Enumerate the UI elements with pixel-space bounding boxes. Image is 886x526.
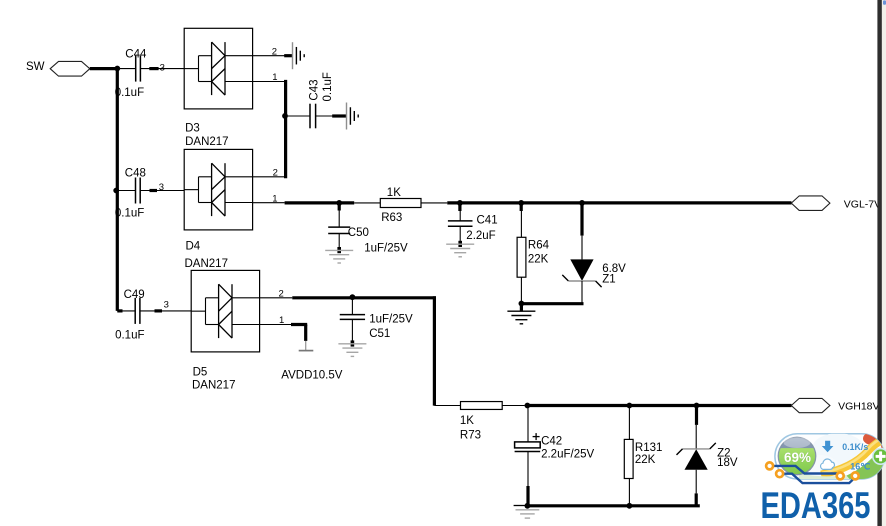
svg-text:D4: D4 xyxy=(186,241,201,253)
svg-text:R63: R63 xyxy=(381,212,402,224)
wire C49 to D5 pin3 xyxy=(140,310,191,312)
port SW xyxy=(50,61,90,76)
wire R63 to VGL rail xyxy=(421,202,447,204)
net label VGH18V xyxy=(838,400,879,412)
svg-text:0.1uF: 0.1uF xyxy=(115,208,144,220)
widget battery circle 69% xyxy=(778,437,817,476)
svg-text:SW: SW xyxy=(26,61,45,73)
wire C43 to ground xyxy=(316,115,347,117)
net label SW xyxy=(26,61,45,73)
svg-text:1uF/25V: 1uF/25V xyxy=(369,313,413,325)
svg-text:AVDD10.5V: AVDD10.5V xyxy=(281,369,342,381)
node C42 junction xyxy=(525,403,531,409)
svg-text:1: 1 xyxy=(272,72,277,83)
node Z1 top junction xyxy=(579,200,585,206)
capacitor C49 xyxy=(115,289,145,341)
label D3 xyxy=(185,123,200,135)
node C43 branch junction xyxy=(282,113,288,119)
wire D4 pin2 xyxy=(253,176,286,178)
wire C44 to D3 pin3 xyxy=(140,68,184,70)
wire bottom rail (thick) xyxy=(527,504,699,507)
wire R131 bottom xyxy=(628,479,630,506)
svg-text:3: 3 xyxy=(160,62,165,73)
wire D5 pin1 xyxy=(260,324,291,326)
node C51 junction xyxy=(350,294,356,300)
value DAN217 (D4) xyxy=(185,258,228,270)
svg-text:VGH18V: VGH18V xyxy=(838,400,879,412)
svg-text:C48: C48 xyxy=(125,168,146,180)
svg-text:C44: C44 xyxy=(125,48,147,60)
svg-text:C49: C49 xyxy=(124,289,145,301)
widget temperature text xyxy=(850,461,870,471)
power symbol AVDD10.5V xyxy=(299,341,314,351)
label D4 xyxy=(186,241,201,253)
wire thick vertical D3 pin1 to D4 pin2 xyxy=(284,80,287,178)
svg-text:18V: 18V xyxy=(717,457,738,469)
svg-text:2: 2 xyxy=(273,167,278,178)
net label AVDD10.5V xyxy=(281,369,342,381)
wire R64 top xyxy=(520,211,522,237)
ground (C41) xyxy=(446,241,474,257)
capacitor C42 (polarized) xyxy=(515,433,595,461)
wire D5 pin2 thick horizontal xyxy=(292,296,436,299)
wire R64 bottom xyxy=(520,277,522,303)
value DAN217 (D5) xyxy=(192,379,235,391)
zener Z2 18V xyxy=(677,443,738,470)
svg-text:0.1K/s: 0.1K/s xyxy=(842,442,868,452)
EDA365 logo text xyxy=(761,485,871,526)
label D5 xyxy=(193,367,208,379)
wire VGH vertical (thick) xyxy=(433,296,436,405)
scrollbar track xyxy=(882,0,886,526)
svg-text:2: 2 xyxy=(279,288,284,299)
widget PCB pads xyxy=(766,462,859,479)
capacitor C41 xyxy=(448,215,498,242)
svg-text:1uF/25V: 1uF/25V xyxy=(364,243,408,255)
wire to R73 xyxy=(434,405,460,407)
wire D5 pin2 xyxy=(260,297,293,299)
pin number 2 (D4) xyxy=(273,167,278,178)
widget download speed text xyxy=(842,442,868,452)
wire Z1 top thin xyxy=(581,236,583,260)
wire VGH rail (thick) xyxy=(527,404,791,407)
pin number 1 (D4) xyxy=(272,193,277,204)
wire C42 bottom xyxy=(527,452,529,506)
svg-text:1K: 1K xyxy=(387,187,401,199)
capacitor C48 xyxy=(115,168,146,220)
wire C50 to ground xyxy=(338,234,340,251)
ground (C43) xyxy=(347,103,359,130)
resistor R131 xyxy=(624,439,662,478)
wire SW to bus junction (thick) xyxy=(90,67,119,70)
resistor R63 xyxy=(380,187,421,224)
diode D3 DAN217 dual package xyxy=(184,28,252,109)
svg-text:D3: D3 xyxy=(185,123,200,135)
ground (D3 pin2) xyxy=(293,42,305,69)
svg-text:VGL-7V: VGL-7V xyxy=(844,199,881,211)
wire bus to C48 xyxy=(119,190,136,192)
svg-text:2.2uF/25V: 2.2uF/25V xyxy=(541,449,594,461)
svg-text:22K: 22K xyxy=(635,454,656,466)
capacitor C43 xyxy=(309,72,335,128)
wire Z2 top thin xyxy=(695,425,697,449)
widget cloud icon xyxy=(821,459,835,469)
wire Z2 bottom xyxy=(695,470,697,506)
svg-text:DAN217: DAN217 xyxy=(192,379,235,391)
pin number 2 (D3) xyxy=(272,46,277,57)
svg-text:69%: 69% xyxy=(784,450,811,465)
wire VGL rail (thick) xyxy=(447,201,791,204)
svg-text:DAN217: DAN217 xyxy=(185,258,228,270)
svg-text:DAN217: DAN217 xyxy=(185,136,228,148)
port VGH18V xyxy=(791,398,830,412)
svg-text:2.2uF: 2.2uF xyxy=(466,230,495,242)
widget download arrow xyxy=(822,441,834,453)
wire bus to C44 xyxy=(119,68,136,70)
wire SW vertical bus (thick) xyxy=(117,69,122,311)
node C41 junction xyxy=(457,200,463,211)
wire Z2 top stub (thick) xyxy=(695,406,698,425)
ground (bottom rail) xyxy=(514,506,540,519)
widget PCB traces xyxy=(773,466,856,483)
pin number 3 (D4) xyxy=(159,182,164,193)
wire C41 to ground xyxy=(459,226,461,244)
wire D4 pin1 xyxy=(253,202,285,204)
node C50 junction xyxy=(336,200,342,211)
node SW bus junction xyxy=(114,66,120,72)
svg-text:C43: C43 xyxy=(309,79,321,100)
svg-text:0.1uF: 0.1uF xyxy=(322,72,334,101)
wire C50 junction to R63 xyxy=(354,202,380,204)
svg-text:1K: 1K xyxy=(460,415,474,427)
wire R131 top xyxy=(628,406,630,440)
port VGL-7V xyxy=(791,196,830,211)
wire D3 pin2 to ground xyxy=(253,55,293,57)
wire Z1 bottom xyxy=(581,281,583,304)
wire Z1 top stub (thick) xyxy=(580,203,583,236)
svg-text:D5: D5 xyxy=(193,367,208,379)
zener Z1 6.8V xyxy=(562,259,626,287)
resistor R73 xyxy=(460,402,502,442)
capacitor C51 xyxy=(340,313,413,340)
wire AVDD stub (thick L) xyxy=(291,325,307,341)
svg-text:2: 2 xyxy=(272,46,277,57)
node bottom rail ground junction xyxy=(525,503,531,509)
pin number 2 (D5) xyxy=(279,288,284,299)
wire C41 vertical xyxy=(459,211,461,221)
svg-text:EDA365: EDA365 xyxy=(761,485,871,526)
pin number 1 (D3) xyxy=(272,72,277,83)
node R64 junction xyxy=(518,200,524,211)
wire R73 to junction xyxy=(502,405,524,407)
node Z2 top junction xyxy=(694,403,700,409)
svg-text:3: 3 xyxy=(159,182,164,193)
diode D4 DAN217 dual package xyxy=(184,149,252,230)
svg-text:R64: R64 xyxy=(528,239,550,251)
resistor R64 xyxy=(517,237,550,277)
capacitor C44 xyxy=(115,48,147,99)
wire C50 vertical xyxy=(338,211,340,228)
capacitor C50 xyxy=(328,227,408,255)
svg-text:C50: C50 xyxy=(348,227,369,239)
wire bus to C49 xyxy=(117,310,135,312)
svg-text:3: 3 xyxy=(164,300,169,311)
svg-text:16℃: 16℃ xyxy=(850,461,870,471)
value DAN217 (D3) xyxy=(185,136,228,148)
svg-text:R131: R131 xyxy=(635,442,663,454)
diode D5 DAN217 dual package xyxy=(191,270,259,352)
svg-text:R73: R73 xyxy=(460,430,481,442)
svg-text:0.1uF: 0.1uF xyxy=(115,87,144,99)
svg-text:C42: C42 xyxy=(541,436,562,448)
svg-text:0.1uF: 0.1uF xyxy=(115,330,144,342)
wire D3 pin1 xyxy=(253,81,286,83)
ground (R64) xyxy=(507,311,535,324)
node R131 top junction xyxy=(627,403,633,409)
pin number 3 (D3) xyxy=(160,62,165,73)
pin number 1 (D5) xyxy=(279,315,284,326)
EDA365 widget bubble xyxy=(775,432,886,480)
wire C51 to ground xyxy=(351,319,353,341)
wire junction to C43 xyxy=(287,115,310,117)
svg-text:C51: C51 xyxy=(369,328,390,340)
pin number 3 (D5) xyxy=(164,300,169,311)
widget plus button xyxy=(873,449,886,465)
window edge dark bar xyxy=(877,0,882,526)
node C48 branch junction xyxy=(113,188,119,194)
ground (C51) xyxy=(338,340,366,356)
wire C42 vertical top xyxy=(527,406,529,442)
wire C48 to D4 pin3 xyxy=(140,190,184,192)
svg-text:C41: C41 xyxy=(477,215,498,227)
wire VGL thick segment (D4 pin1 to C50) xyxy=(285,201,355,204)
wire C51 vertical xyxy=(351,298,353,315)
svg-text:1: 1 xyxy=(272,193,277,204)
node R64 bottom junction xyxy=(519,301,525,312)
svg-text:22K: 22K xyxy=(528,254,549,266)
ground (C50) xyxy=(325,247,353,263)
svg-text:Z1: Z1 xyxy=(602,274,615,286)
node R131 bottom junction xyxy=(627,503,633,509)
svg-text:1: 1 xyxy=(279,315,284,326)
net label VGL-7V xyxy=(844,199,881,211)
wire R64 junction to Z1 bottom (thick) xyxy=(521,302,583,305)
